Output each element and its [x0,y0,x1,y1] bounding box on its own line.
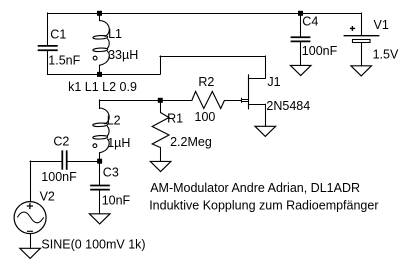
svg-text:C2: C2 [53,135,69,149]
svg-text:100nF: 100nF [41,170,77,184]
svg-text:SINE(0 100mV 1k): SINE(0 100mV 1k) [41,238,145,252]
svg-text:J1: J1 [267,75,280,89]
svg-text:L1: L1 [108,27,122,41]
svg-text:2N5484: 2N5484 [266,99,310,113]
svg-text:1µH: 1µH [107,136,130,150]
svg-text:1.5V: 1.5V [373,47,399,61]
svg-text:C1: C1 [50,27,66,41]
svg-text:C3: C3 [103,165,119,179]
svg-text:1.5nF: 1.5nF [48,54,80,68]
svg-text:C4: C4 [302,15,318,29]
svg-text:100: 100 [195,110,216,124]
svg-text:L2: L2 [107,113,121,127]
svg-text:100nF: 100nF [302,44,338,58]
svg-text:R2: R2 [198,75,214,89]
svg-text:33µH: 33µH [108,48,138,62]
svg-text:R1: R1 [167,111,183,125]
svg-text:Induktive Kopplung zum Radioem: Induktive Kopplung zum Radioempfänger [149,199,378,213]
svg-text:10nF: 10nF [102,194,131,208]
svg-text:V2: V2 [40,189,55,203]
svg-text:V1: V1 [374,18,389,32]
svg-text:2.2Meg: 2.2Meg [170,135,212,149]
svg-text:k1 L1 L2 0.9: k1 L1 L2 0.9 [68,80,137,94]
svg-text:AM-Modulator Andre Adrian, DL1: AM-Modulator Andre Adrian, DL1ADR [150,181,360,195]
